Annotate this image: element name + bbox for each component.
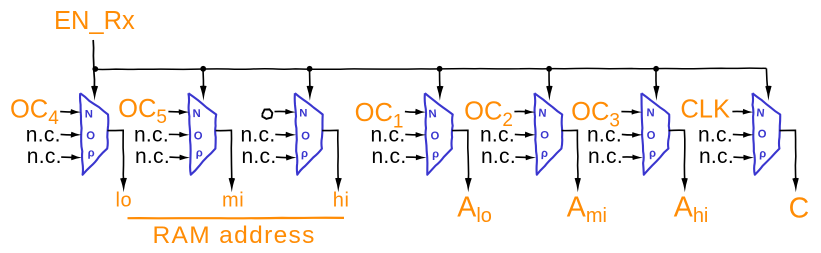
wire input arrow 2 into mux U5 [515,133,530,136]
svg-text:O: O [430,130,440,142]
wire input arrow 1 into mux U1 [60,111,75,114]
multiplexer U5 body [534,93,562,175]
svg-text:O: O [758,129,767,141]
svg-text:N: N [85,109,93,121]
wire select drop from bus into mux U5 [548,69,551,92]
svg-text:n.c.: n.c. [240,124,275,147]
svg-text:n.c.: n.c. [480,124,515,147]
wire input arrow 1 into mux U2 [168,111,183,114]
wire select drop from bus into mux U1 [91,86,98,101]
svg-text:O: O [540,130,549,142]
wire input arrow 1 into mux U7 [732,110,747,113]
wire input arrow 3 into mux U7 [733,156,748,159]
svg-text:O: O [193,130,203,143]
svg-text:n.c.: n.c. [699,145,734,168]
svg-text:n.c.: n.c. [587,124,622,147]
svg-text:RAM address: RAM address [153,222,316,249]
junction dot on EN_Rx bus at mux 1 [92,66,98,72]
wire input arrow 3 into mux U5 [515,156,530,159]
svg-text:N: N [538,107,547,120]
multiplexer U2 body [188,93,216,175]
junction dot on EN_Rx bus at mux 3 [307,66,313,72]
junction dot on EN_Rx bus at mux 6 [653,66,659,72]
svg-text:N: N [756,107,765,120]
multiplexer U4 body [425,93,453,175]
svg-text:n.c.: n.c. [241,145,276,168]
svg-text:n.c.: n.c. [134,124,169,147]
svg-text:ρ: ρ [649,148,656,160]
svg-text:N: N [428,108,437,121]
wire input arrow 1 into mux U3 [275,110,290,113]
wire input arrow 1 into mux U6 [621,111,636,114]
svg-text:O: O [301,130,311,142]
wire output of mux U4 [452,130,468,183]
svg-text:ρ: ρ [432,149,439,161]
wire input arrow 2 into mux U7 [733,133,748,136]
wire input arrow 2 into mux U3 [275,133,290,136]
wire input arrow 3 into mux U3 [276,156,291,159]
junction dot on EN_Rx bus at mux 4 [437,66,443,72]
junction dot on EN_Rx bus at mux 2 [200,66,206,72]
svg-text:ρ: ρ [759,148,766,160]
wire output of mux U6 [669,130,685,183]
multiplexer U7 body [752,93,780,175]
svg-text:mi: mi [222,189,244,211]
wire input arrow 1 into mux U4 [405,111,420,114]
wire input arrow 2 into mux U2 [169,133,184,136]
wire input arrow 3 into mux U2 [169,156,184,159]
wire output of mux U3 [322,130,338,183]
wire output of mux U1 [107,130,123,183]
svg-text:CLK: CLK [680,96,730,124]
svg-text:n.c.: n.c. [481,145,516,168]
wire select drop from bus into mux U4 [439,69,442,92]
multiplexer U6 body [641,93,669,175]
svg-text:ρ: ρ [541,148,548,160]
svg-text:N: N [299,108,307,120]
svg-text:O: O [646,130,656,142]
svg-text:EN_Rx: EN_Rx [54,7,135,35]
svg-text:O: O [86,130,96,143]
wire input arrow 3 into mux U4 [406,156,421,159]
multiplexer U1 body [80,93,108,175]
svg-text:N: N [646,107,655,119]
wire output of mux U7 [780,130,796,183]
multiplexer U3 body [295,93,323,175]
svg-text:n.c.: n.c. [588,145,623,168]
wire input arrow 2 into mux U6 [622,133,637,136]
svg-text:hi: hi [333,189,350,211]
wire select drop from bus into mux U6 [655,69,658,92]
RAM address bracket line [128,217,345,220]
svg-text:n.c.: n.c. [371,145,406,168]
wire input arrow 3 into mux U1 [61,156,75,159]
junction dot on EN_Rx bus at mux 5 [546,66,552,72]
svg-text:n.c.: n.c. [26,124,61,147]
svg-text:n.c.: n.c. [135,145,170,168]
svg-text:C: C [789,193,810,225]
wire EN_Rx horizontal bus [94,68,767,69]
wire input arrow 3 into mux U6 [622,156,637,159]
wire select drop from bus into mux U3 [309,69,312,92]
svg-text:ρ: ρ [196,147,203,159]
constant 0 input symbol (small circle) into mux U3 [262,109,272,119]
wire output of mux U5 [562,130,578,183]
svg-text:ρ: ρ [88,147,95,159]
wire EN_Rx vertical to bus [93,40,94,88]
wire output of mux U2 [216,130,232,183]
wire input arrow 1 into mux U5 [514,110,529,113]
wire select drop from bus into mux U7 [766,68,767,92]
svg-text:ρ: ρ [301,148,308,160]
svg-text:lo: lo [116,189,133,211]
svg-text:n.c.: n.c. [370,124,405,147]
svg-text:n.c.: n.c. [27,145,62,168]
svg-text:N: N [192,108,200,120]
wire input arrow 2 into mux U4 [405,133,420,136]
wire select drop from bus into mux U2 [202,69,205,92]
wire input arrow 2 into mux U1 [61,133,76,136]
svg-text:n.c.: n.c. [698,124,733,147]
